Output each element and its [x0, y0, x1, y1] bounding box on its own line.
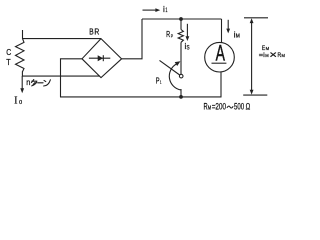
wire CT bottom to BR bottom vertex — [22, 75, 100, 77]
current arrow iM head — [226, 29, 230, 34]
wire CT top to BR top vertex — [23, 38, 102, 40]
svg-text:×: × — [269, 50, 277, 61]
svg-text:T: T — [6, 57, 10, 67]
diode triangle — [98, 55, 103, 61]
current arrow is head — [186, 36, 190, 41]
wire top rail down to ammeter — [221, 19, 223, 43]
potentiometer P1 wiper contact circle — [179, 74, 183, 78]
ammeter A1 circle — [205, 42, 235, 72]
I0 current arrow line — [21, 76, 23, 89]
current arrow i1 line — [143, 9, 157, 11]
wave dash of RM value — [227, 106, 233, 108]
EM dimension down arrowhead — [250, 90, 254, 95]
ammeter A underline — [212, 62, 227, 64]
EM dimension up arrowhead — [250, 18, 254, 23]
wire ammeter bottom to bottom rail — [220, 72, 222, 97]
svg-text:500: 500 — [234, 102, 244, 112]
diode cathode bar — [102, 55, 104, 61]
wire Rp to P1 wiper — [180, 42, 182, 74]
wire top rail down to Rp — [180, 19, 182, 30]
P1 adjustment arc — [169, 64, 181, 90]
wire BR right vertex to top rail corner — [122, 19, 142, 59]
CT primary top stub — [22, 30, 24, 39]
top rail wire — [142, 18, 222, 20]
current arrow iM line — [227, 20, 229, 30]
bottom rail wire — [60, 96, 222, 98]
bridge rectifier BR diamond — [82, 39, 122, 78]
svg-text:R: R — [166, 30, 170, 39]
svg-text:P: P — [171, 33, 173, 39]
svg-text:S: S — [187, 44, 190, 51]
wire BR left vertex to bottom rail — [61, 59, 83, 97]
katakana N of n-turns — [44, 80, 46, 81]
junction dot bottom rail — [179, 95, 183, 99]
current arrow is line — [186, 24, 188, 37]
resistor Rp zigzag — [178, 30, 183, 43]
CT secondary winding zigzag — [16, 39, 25, 72]
svg-text:I: I — [14, 95, 17, 106]
I0 arrowhead — [20, 88, 24, 93]
junction dot top rail — [179, 17, 183, 21]
current arrow i1 head — [155, 8, 160, 12]
P1 arc arrowhead — [175, 61, 181, 66]
svg-text:M: M — [265, 53, 268, 59]
svg-text:C: C — [6, 47, 11, 57]
svg-text:M: M — [236, 34, 240, 40]
katakana TA of n-turns — [32, 80, 34, 83]
svg-text:1: 1 — [160, 80, 162, 86]
P1 wiper arm — [160, 60, 180, 75]
svg-text:B: B — [89, 27, 94, 37]
EM dimension vertical line — [251, 21, 253, 92]
svg-text:0: 0 — [19, 100, 22, 106]
diode inside BR: lead line — [89, 57, 110, 59]
svg-text:=200: =200 — [212, 102, 226, 112]
wire P1 arc to bottom rail — [180, 89, 182, 97]
EM dimension top bar — [244, 17, 268, 19]
svg-text:Ω: Ω — [246, 102, 251, 112]
svg-text:R: R — [94, 27, 99, 37]
wire CT winding bottom lead — [21, 71, 23, 76]
svg-text:n: n — [26, 77, 30, 87]
katakana long bar of n-turns — [38, 82, 44, 84]
svg-text:M: M — [208, 106, 212, 112]
svg-text:A: A — [216, 40, 226, 65]
EM dimension bottom bar — [243, 94, 267, 96]
svg-text:M: M — [282, 53, 285, 59]
ammeter letter A (tall narrow) — [216, 40, 226, 65]
svg-text:1: 1 — [166, 7, 168, 14]
